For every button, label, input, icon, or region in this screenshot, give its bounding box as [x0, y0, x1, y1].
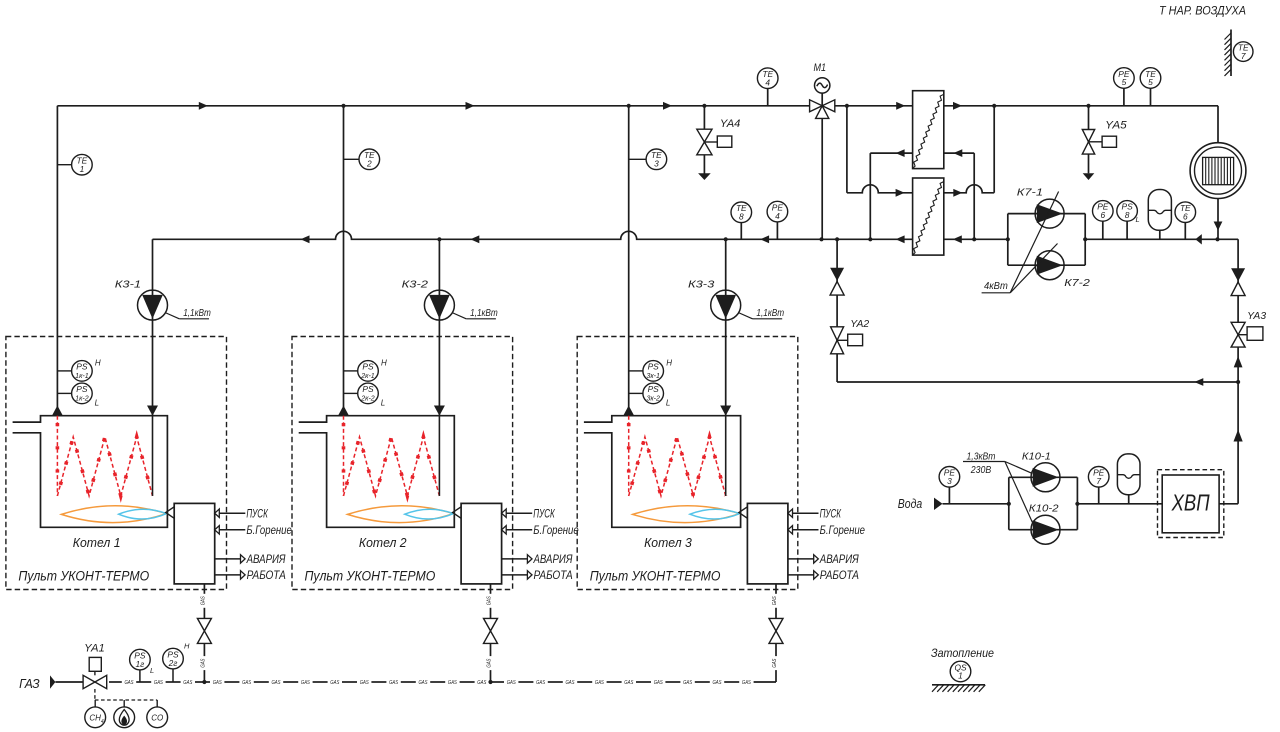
svg-text:GAS: GAS: [330, 680, 339, 686]
svg-text:GAS: GAS: [742, 680, 751, 686]
svg-text:PS: PS: [76, 362, 88, 372]
svg-text:GAS: GAS: [272, 680, 281, 686]
svg-text:3к-1: 3к-1: [646, 373, 660, 380]
svg-text:1,1кВт: 1,1кВт: [470, 307, 498, 319]
svg-text:Вода: Вода: [898, 496, 922, 511]
svg-text:К10-2: К10-2: [1029, 503, 1059, 515]
svg-text:РАБОТА: РАБОТА: [247, 570, 286, 582]
svg-text:GAS: GAS: [154, 680, 163, 686]
svg-text:Котел 1: Котел 1: [73, 536, 121, 550]
svg-text:2к-2: 2к-2: [360, 396, 375, 403]
svg-text:GAS: GAS: [301, 680, 310, 686]
svg-text:YA5: YA5: [1105, 119, 1127, 131]
svg-text:7: 7: [1241, 51, 1246, 61]
svg-text:H: H: [666, 359, 672, 368]
svg-text:4: 4: [101, 719, 104, 725]
svg-text:CH: CH: [89, 714, 101, 723]
svg-text:Т НАР. ВОЗДУХА: Т НАР. ВОЗДУХА: [1159, 6, 1246, 18]
svg-text:GAS: GAS: [213, 680, 222, 686]
svg-text:1: 1: [80, 164, 85, 174]
svg-text:1,1кВт: 1,1кВт: [756, 307, 784, 319]
svg-text:Пульт УКОНТ-ТЕРМО: Пульт УКОНТ-ТЕРМО: [18, 569, 149, 584]
svg-text:РАБОТА: РАБОТА: [820, 570, 859, 582]
svg-text:L: L: [1136, 215, 1140, 224]
svg-text:5: 5: [1148, 77, 1153, 87]
svg-text:GAS: GAS: [200, 596, 206, 605]
svg-text:GAS: GAS: [419, 680, 428, 686]
svg-text:6: 6: [1183, 211, 1188, 221]
svg-text:ХВП: ХВП: [1171, 490, 1210, 516]
svg-text:ПУСК: ПУСК: [820, 508, 842, 520]
svg-text:3: 3: [654, 159, 659, 169]
svg-text:GAS: GAS: [772, 596, 778, 605]
svg-text:GAS: GAS: [624, 680, 633, 686]
svg-text:Пульт УКОНТ-ТЕРМО: Пульт УКОНТ-ТЕРМО: [590, 569, 721, 584]
svg-text:К3-1: К3-1: [115, 279, 141, 291]
svg-text:L: L: [381, 399, 385, 408]
svg-text:230В: 230В: [970, 464, 991, 476]
svg-text:GAS: GAS: [242, 680, 251, 686]
svg-text:GAS: GAS: [183, 680, 192, 686]
svg-text:3к-2: 3к-2: [646, 396, 660, 403]
svg-text:8: 8: [739, 212, 744, 222]
svg-text:GAS: GAS: [448, 680, 457, 686]
svg-text:К7-1: К7-1: [1017, 187, 1043, 199]
svg-text:GAS: GAS: [683, 680, 692, 686]
svg-text:Б.Горение: Б.Горение: [820, 525, 865, 537]
svg-text:М1: М1: [814, 62, 827, 74]
svg-text:К3-3: К3-3: [688, 279, 714, 291]
svg-text:GAS: GAS: [125, 680, 134, 686]
svg-text:PS: PS: [362, 362, 374, 372]
svg-text:7: 7: [1096, 476, 1101, 486]
svg-text:H: H: [95, 359, 101, 368]
svg-text:PS: PS: [648, 384, 660, 394]
svg-text:2: 2: [366, 159, 372, 169]
svg-text:GAS: GAS: [389, 680, 398, 686]
svg-text:1к-1: 1к-1: [75, 373, 89, 380]
svg-text:4: 4: [765, 77, 770, 87]
svg-text:АВАРИЯ: АВАРИЯ: [819, 554, 859, 566]
svg-text:1к-2: 1к-2: [75, 396, 89, 403]
svg-text:PS: PS: [76, 384, 88, 394]
svg-text:К3-2: К3-2: [402, 279, 428, 291]
svg-text:1,1кВт: 1,1кВт: [183, 307, 211, 319]
svg-text:L: L: [150, 666, 154, 675]
svg-text:L: L: [666, 399, 670, 408]
svg-text:4кВт: 4кВт: [984, 280, 1008, 292]
svg-text:ПУСК: ПУСК: [533, 508, 555, 520]
svg-text:GAS: GAS: [360, 680, 369, 686]
svg-text:2г: 2г: [168, 658, 178, 668]
svg-text:GAS: GAS: [566, 680, 575, 686]
svg-text:АВАРИЯ: АВАРИЯ: [246, 554, 286, 566]
svg-text:ПУСК: ПУСК: [246, 508, 268, 520]
svg-text:L: L: [95, 399, 99, 408]
svg-text:2к-1: 2к-1: [360, 373, 375, 380]
svg-text:GAS: GAS: [713, 680, 722, 686]
svg-text:GAS: GAS: [536, 680, 545, 686]
svg-text:YA4: YA4: [720, 118, 741, 130]
svg-text:8: 8: [1125, 210, 1130, 220]
svg-text:CO: CO: [151, 714, 163, 723]
svg-text:1г: 1г: [136, 659, 145, 669]
svg-text:Затопление: Затопление: [931, 646, 994, 660]
svg-text:1,3кВт: 1,3кВт: [967, 451, 996, 463]
svg-text:РАБОТА: РАБОТА: [534, 570, 573, 582]
svg-text:GAS: GAS: [654, 680, 663, 686]
svg-text:Пульт УКОНТ-ТЕРМО: Пульт УКОНТ-ТЕРМО: [305, 569, 436, 584]
svg-text:GAS: GAS: [507, 680, 516, 686]
svg-text:Котел 2: Котел 2: [359, 536, 407, 550]
svg-text:GAS: GAS: [200, 658, 206, 667]
svg-text:YA2: YA2: [850, 318, 869, 330]
svg-text:3: 3: [947, 476, 952, 486]
svg-text:GAS: GAS: [772, 658, 778, 667]
svg-text:6: 6: [1100, 210, 1105, 220]
svg-text:Б.Горение: Б.Горение: [246, 525, 291, 537]
svg-text:5: 5: [1122, 77, 1127, 87]
svg-text:PS: PS: [362, 384, 374, 394]
svg-text:4: 4: [775, 211, 780, 221]
svg-text:PS: PS: [648, 362, 660, 372]
svg-text:H: H: [381, 359, 387, 368]
svg-text:GAS: GAS: [477, 680, 486, 686]
svg-text:ГАЗ: ГАЗ: [19, 676, 40, 691]
svg-text:GAS: GAS: [595, 680, 604, 686]
svg-text:К10-1: К10-1: [1022, 451, 1051, 463]
svg-text:Котел 3: Котел 3: [644, 536, 692, 550]
svg-text:GAS: GAS: [487, 658, 493, 667]
svg-text:YA1: YA1: [84, 643, 105, 655]
svg-text:1: 1: [958, 671, 963, 681]
svg-text:К7-2: К7-2: [1064, 277, 1090, 289]
svg-text:H: H: [184, 642, 190, 651]
svg-text:GAS: GAS: [487, 596, 493, 605]
svg-text:АВАРИЯ: АВАРИЯ: [533, 554, 573, 566]
svg-text:Б.Горение: Б.Горение: [533, 525, 578, 537]
svg-text:YA3: YA3: [1247, 310, 1266, 322]
